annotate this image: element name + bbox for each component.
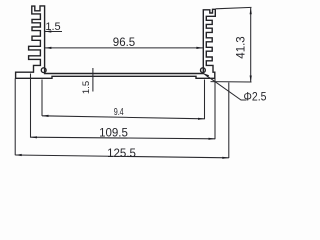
screw boss right [201,68,206,73]
leader phi2.5 [203,73,246,100]
dim 109.5 [30,74,32,138]
dim 1.5 middle vertical [92,68,94,92]
svg-text:1.5: 1.5 [45,21,60,33]
screw boss left [41,68,46,73]
dim 9.4 [41,80,43,116]
dim 1.5 top-left leader [45,31,62,33]
dim 41.3 [216,7,252,8]
svg-text:125.5: 125.5 [107,148,136,160]
svg-text:Φ2.5: Φ2.5 [244,92,267,104]
svg-text:41.3: 41.3 [236,36,248,58]
dim 96.5 line [45,47,203,49]
svg-text:109.5: 109.5 [99,128,128,140]
svg-text:9.4: 9.4 [114,106,124,118]
dim 125.5 [14,79,16,156]
extrusion profile outline [16,6,216,78]
svg-text:96.5: 96.5 [113,37,135,49]
arrowheads [45,30,51,32]
svg-text:1.5: 1.5 [81,81,92,94]
